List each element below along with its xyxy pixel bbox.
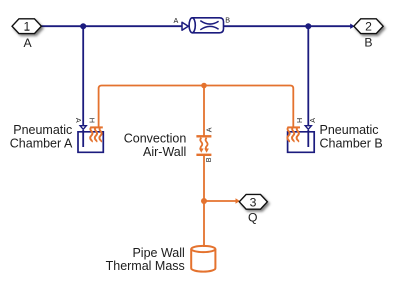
svg-text:Pipe Wall: Pipe Wall — [132, 246, 184, 260]
port 2 — [354, 19, 383, 34]
svg-text:Chamber B: Chamber B — [320, 137, 383, 151]
heat squiggles — [90, 127, 92, 142]
wire: pipe block to port2 — [224, 25, 352, 27]
svg-text:Air-Wall: Air-Wall — [143, 145, 186, 159]
svg-text:Thermal Mass: Thermal Mass — [106, 259, 185, 273]
pneumatic chamber B block — [287, 118, 317, 153]
svg-text:Chamber A: Chamber A — [10, 137, 73, 151]
svg-text:2: 2 — [365, 20, 372, 34]
svg-text:Convection: Convection — [124, 132, 187, 146]
bottom plate — [196, 154, 211, 156]
node: junction left — [80, 23, 86, 29]
wire: junction to Pneumatic Chamber A port A — [82, 26, 84, 125]
thermal mass block (cylinder) — [191, 246, 215, 272]
wire: port1 to pipe block (pneumatic) — [41, 25, 183, 27]
node: thermal junction at Q — [201, 198, 207, 204]
svg-text:A: A — [308, 118, 317, 123]
chamber box — [78, 132, 103, 153]
node: thermal rail junction — [201, 83, 207, 89]
svg-text:B: B — [204, 157, 213, 162]
svg-text:3: 3 — [250, 195, 257, 209]
top plate — [196, 135, 211, 137]
pipe block (local restriction) — [174, 15, 231, 33]
wire: convection block to junction — [203, 155, 205, 201]
port 3 — [239, 195, 267, 210]
wire: junction to Pneumatic Chamber B port A — [307, 26, 309, 125]
svg-text:A: A — [205, 127, 214, 132]
svg-text:A: A — [174, 16, 179, 25]
wire: junction to Pipe Wall Thermal Mass — [203, 201, 205, 247]
chamber box — [288, 132, 315, 153]
heat squiggles — [287, 127, 289, 142]
port A arrow — [79, 125, 88, 130]
svg-text:Q: Q — [248, 211, 257, 225]
wavy arrow 2 — [206, 138, 208, 149]
svg-text:Pneumatic: Pneumatic — [13, 123, 72, 137]
convection block (convective heat transfer) — [196, 127, 213, 162]
wire: thermal rail chamber A H to chamber B H — [99, 86, 294, 128]
svg-text:Pneumatic: Pneumatic — [320, 123, 379, 137]
svg-text:B: B — [225, 15, 230, 24]
port A arrow — [304, 125, 313, 130]
node: junction right — [305, 23, 311, 29]
wire arrow into port3 — [236, 198, 240, 203]
pneumatic chamber A block — [74, 118, 104, 153]
dip tube — [82, 130, 84, 147]
wire: junction to port3 Q — [204, 200, 237, 202]
svg-text:1: 1 — [24, 20, 31, 34]
port 1 — [12, 19, 41, 34]
dip tube — [307, 130, 309, 147]
svg-text:A: A — [74, 118, 83, 123]
wavy arrow 1 — [200, 138, 202, 149]
svg-text:H: H — [87, 118, 96, 123]
svg-text:A: A — [24, 36, 33, 50]
wire: rail to convection block — [203, 86, 205, 137]
svg-text:H: H — [295, 118, 304, 123]
wire arrow into port2 — [350, 24, 354, 29]
svg-text:B: B — [364, 36, 372, 50]
